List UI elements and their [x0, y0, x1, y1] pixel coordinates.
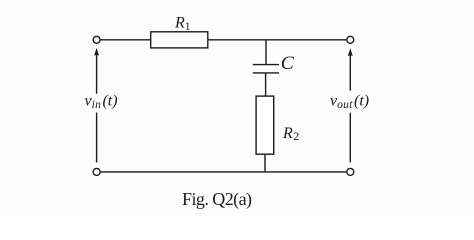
- svg-text:vin(t): vin(t): [85, 93, 118, 111]
- svg-text:vout(t): vout(t): [330, 93, 369, 111]
- svg-text:R2: R2: [282, 125, 299, 143]
- svg-text:Fig. Q2(a): Fig. Q2(a): [182, 189, 252, 210]
- svg-text:C: C: [281, 54, 295, 74]
- svg-text:R1: R1: [174, 15, 191, 33]
